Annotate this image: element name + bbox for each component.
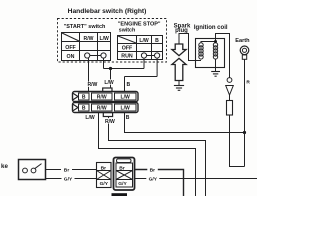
svg-text:"ENGINE STOP": "ENGINE STOP" (118, 21, 161, 27)
svg-text:G/Y: G/Y (100, 181, 109, 187)
svg-text:G/Y: G/Y (118, 181, 127, 187)
svg-text:L/W: L/W (85, 115, 95, 121)
svg-text:ON: ON (67, 54, 75, 60)
svg-text:Handlebar switch (Right): Handlebar switch (Right) (68, 8, 147, 15)
svg-text:B: B (82, 105, 86, 111)
svg-text:switch: switch (119, 28, 135, 34)
svg-text:Br: Br (150, 168, 156, 174)
svg-text:G/Y: G/Y (149, 177, 158, 183)
svg-text:R/W: R/W (105, 119, 115, 125)
svg-text:Br: Br (64, 168, 70, 174)
svg-text:OFF: OFF (122, 46, 133, 52)
svg-text:R/W: R/W (84, 36, 94, 42)
svg-text:L/W: L/W (139, 38, 149, 44)
svg-text:Earth: Earth (235, 38, 250, 44)
svg-text:Br: Br (101, 165, 107, 171)
svg-text:L/W: L/W (121, 105, 131, 111)
svg-text:G/Y: G/Y (64, 177, 73, 183)
svg-text:B: B (82, 94, 86, 100)
svg-text:OFF: OFF (65, 45, 76, 51)
svg-text:R/W: R/W (97, 105, 107, 111)
svg-text:L/W: L/W (121, 94, 131, 100)
svg-text:B: B (127, 82, 131, 88)
svg-text:B: B (155, 38, 159, 44)
svg-text:L/W: L/W (104, 80, 114, 86)
svg-text:R: R (246, 80, 250, 86)
svg-text:"START" switch: "START" switch (64, 24, 106, 30)
svg-text:ke: ke (1, 163, 8, 170)
svg-text:R/W: R/W (87, 82, 97, 88)
svg-text:B: B (126, 115, 130, 121)
svg-text:L/W: L/W (100, 36, 110, 42)
svg-text:Ignition coil: Ignition coil (194, 25, 228, 31)
svg-text:R/W: R/W (97, 94, 107, 100)
svg-text:Br: Br (119, 165, 125, 171)
svg-text:RUN: RUN (121, 54, 133, 60)
